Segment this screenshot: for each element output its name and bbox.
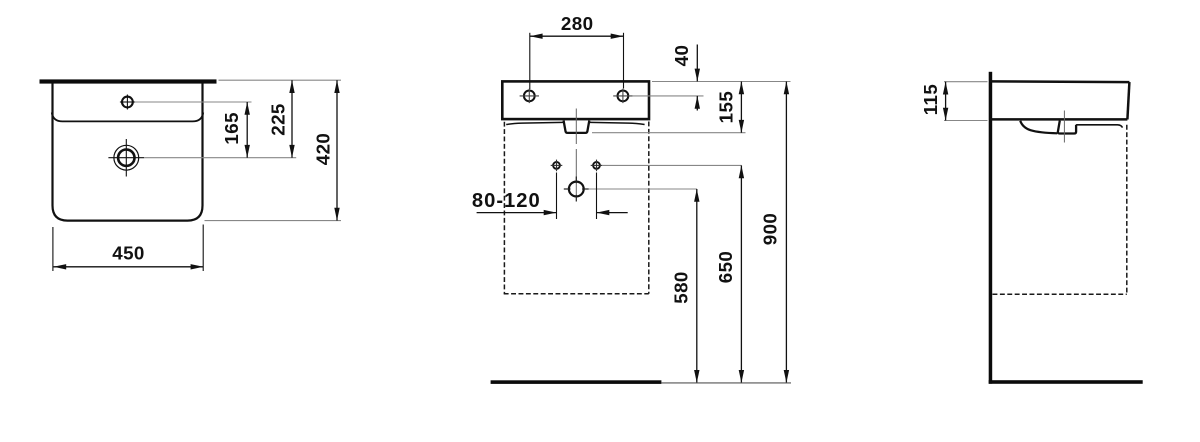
basin side: right edge bbox=[1127, 82, 1129, 119]
basin top extension line (middle) bbox=[652, 81, 791, 83]
svg-text:225: 225 bbox=[267, 103, 288, 136]
tap hole leader bbox=[135, 101, 252, 103]
dimension 450 extension lines bbox=[53, 225, 203, 272]
svg-text:450: 450 bbox=[112, 243, 145, 264]
dimension 115 bbox=[920, 82, 948, 121]
top edge extension line bbox=[219, 79, 342, 81]
svg-text:115: 115 bbox=[920, 84, 941, 116]
svg-text:650: 650 bbox=[715, 251, 736, 284]
svg-text:155: 155 bbox=[715, 91, 736, 124]
right bracket hole bbox=[591, 160, 603, 172]
hidden outline (dashed) bbox=[504, 122, 649, 294]
basin deck inner line bbox=[52, 113, 203, 122]
dimension 80-120 bbox=[472, 190, 628, 215]
svg-text:580: 580 bbox=[671, 271, 692, 304]
bowl profile (side) bbox=[1020, 121, 1057, 134]
svg-text:280: 280 bbox=[561, 13, 594, 34]
drain centerline (front) bbox=[575, 109, 577, 198]
left fixing hole bbox=[520, 89, 539, 103]
floor extension line (middle, thin) bbox=[661, 382, 791, 384]
overflow outlet (front) bbox=[564, 121, 590, 133]
bowl silhouette right bbox=[590, 122, 645, 124]
bowl silhouette left bbox=[506, 122, 563, 124]
dimension 280 bbox=[530, 13, 624, 39]
dimension 80-120 extension lines bbox=[557, 173, 597, 220]
dimension 155 bbox=[715, 82, 744, 133]
dimension 420 bbox=[312, 80, 339, 220]
basin side: bottom edge bbox=[990, 118, 1127, 121]
left bracket hole bbox=[551, 160, 563, 172]
bracket holes leader bbox=[602, 164, 741, 166]
drain box (side) bbox=[1058, 121, 1076, 134]
svg-text:80-120: 80-120 bbox=[472, 190, 541, 212]
basin outer rim bbox=[53, 83, 203, 220]
basin underside line (side) bbox=[1076, 125, 1122, 128]
basin side: top edge bbox=[990, 80, 1129, 83]
dimension 580 bbox=[671, 189, 700, 383]
floor line (middle, thick) bbox=[491, 380, 662, 384]
dimension 650 bbox=[715, 165, 744, 382]
outlet bottom extension line bbox=[592, 132, 746, 134]
dimension 900 bbox=[759, 82, 789, 383]
drain leader (front) bbox=[589, 188, 697, 190]
floor line (right, thick) bbox=[989, 380, 1143, 384]
dimension 450 bbox=[53, 243, 203, 270]
right fixing hole leader bbox=[633, 95, 704, 97]
wall bar (thick) bbox=[40, 79, 217, 83]
hidden outline (dashed, side) bbox=[993, 125, 1127, 294]
bottom edge extension line bbox=[205, 220, 342, 222]
dimension 40 bbox=[671, 45, 700, 111]
dimension 115 extension lines bbox=[944, 82, 988, 121]
svg-text:420: 420 bbox=[312, 133, 333, 166]
svg-text:165: 165 bbox=[221, 112, 242, 145]
wall line bbox=[989, 72, 993, 384]
basin front body bbox=[502, 81, 649, 119]
svg-text:900: 900 bbox=[759, 213, 780, 246]
drain leader bbox=[144, 157, 296, 159]
dimension 165 bbox=[221, 102, 250, 158]
dimension 225 bbox=[267, 80, 294, 158]
dimension 280 extension lines bbox=[530, 33, 624, 89]
drain centerline (side) bbox=[1063, 111, 1065, 143]
drain (front) bbox=[564, 177, 589, 202]
tap hole bbox=[120, 95, 135, 110]
drain (top view) bbox=[108, 139, 144, 177]
svg-text:40: 40 bbox=[671, 45, 692, 67]
right fixing hole bbox=[613, 89, 632, 103]
